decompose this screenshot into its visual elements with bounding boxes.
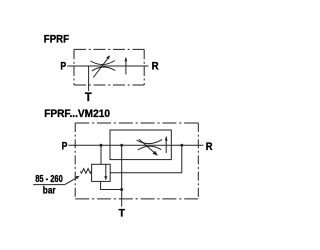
setting label underline / leader <box>33 184 65 186</box>
svg-text:FPRF...VM210: FPRF...VM210 <box>44 108 110 120</box>
svg-text:P: P <box>62 140 68 152</box>
wire relief inlet <box>100 145 102 164</box>
relief valve body <box>92 164 111 181</box>
relief valve flow arrow <box>105 164 107 176</box>
envelope box (chain line) FPRF <box>74 49 144 85</box>
wire bypass to T <box>121 145 123 206</box>
wire relief drain to tank line <box>101 181 122 189</box>
wire P to R <box>67 65 148 67</box>
wire P to R (main) <box>68 144 203 146</box>
restrictor arcs (adjustable throttle) <box>91 61 115 65</box>
relief spring <box>80 169 91 174</box>
node: tank line junction <box>120 188 123 191</box>
compensator arrow (vertical) <box>165 140 167 153</box>
node: bypass junction <box>120 144 123 147</box>
svg-text:R: R <box>152 61 159 73</box>
restrictor arcs (adjustable throttle) <box>137 140 162 144</box>
adjustment arrow (diagonal) <box>93 57 109 78</box>
svg-text:R: R <box>206 141 213 153</box>
adjustment arrow (diagonal, head low-right) <box>139 139 155 153</box>
svg-text:T: T <box>85 90 92 104</box>
envelope box (chain line) FPRF...VM210 <box>75 123 198 199</box>
svg-text:bar: bar <box>43 185 56 197</box>
node: P branch junction <box>100 144 103 147</box>
wire T branch <box>88 66 90 91</box>
svg-text:T: T <box>119 208 126 220</box>
svg-text:P: P <box>60 60 66 72</box>
regulator body box <box>110 130 171 160</box>
svg-text:85 - 260: 85 - 260 <box>35 173 63 185</box>
node: relief return junction <box>180 144 183 147</box>
wire relief outlet to R line <box>110 145 182 172</box>
svg-text:FPRF: FPRF <box>44 34 69 46</box>
compensator arrow (vertical) <box>125 61 127 75</box>
